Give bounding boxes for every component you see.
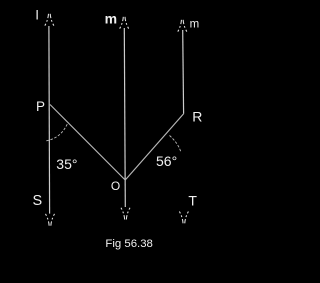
svg-text:m: m — [105, 11, 117, 27]
svg-text:Fig 56.38: Fig 56.38 — [105, 238, 152, 250]
svg-text:56°: 56° — [156, 153, 177, 169]
svg-text:P: P — [36, 99, 45, 114]
svg-text:35°: 35° — [56, 156, 77, 172]
svg-text:R: R — [192, 108, 202, 124]
svg-text:T: T — [188, 192, 197, 208]
svg-text:O: O — [111, 179, 120, 193]
svg-text:S: S — [33, 193, 43, 209]
svg-text:m: m — [190, 19, 200, 31]
svg-text:I: I — [35, 8, 39, 23]
